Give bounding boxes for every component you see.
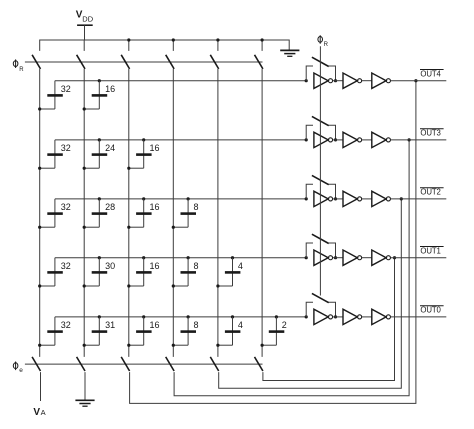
node phi_e (bottom left) bbox=[13, 362, 23, 374]
svg-text:DD: DD bbox=[82, 14, 93, 23]
wire phi_R comparator control vertical bbox=[319, 46, 321, 295]
switch phi_R comparator row 1 bbox=[312, 57, 329, 66]
switch phi_R comparator row 4 bbox=[312, 234, 329, 243]
wire inv2B to inv2C bbox=[362, 139, 372, 141]
svg-text:R: R bbox=[324, 42, 329, 48]
wire column 3 bbox=[128, 69, 130, 357]
wire row 5 top-plate line bbox=[55, 316, 306, 318]
capacitor 24C row 2 bbox=[83, 140, 116, 170]
capacitor 8C row 4 bbox=[172, 258, 199, 288]
node OUT4 label bbox=[420, 69, 444, 78]
ground top-right bbox=[280, 50, 299, 56]
capacitor 32C row 4 bbox=[38, 258, 71, 288]
inverter 4C bbox=[372, 250, 391, 265]
node OUT0 label bbox=[420, 306, 444, 315]
comparator row 2 reset bracket bbox=[306, 125, 337, 141]
svg-text:2: 2 bbox=[282, 320, 287, 330]
wire column 2 bbox=[83, 69, 85, 357]
capacitor 16C row 2 bbox=[127, 140, 159, 170]
inverter 3A bbox=[314, 191, 333, 206]
svg-text:24: 24 bbox=[105, 143, 115, 153]
svg-text:16: 16 bbox=[150, 202, 160, 212]
switch phi_R column 4 bbox=[166, 55, 174, 69]
comparator row 4 reset bracket bbox=[306, 243, 337, 259]
wire column 1 to VA bbox=[40, 372, 42, 401]
node row 4 junctions bbox=[98, 256, 308, 259]
wire feedback loop OUT3 to column 4 bbox=[174, 138, 411, 396]
wire phi_e line bbox=[25, 363, 263, 365]
wire row 1 top-plate line bbox=[55, 80, 306, 82]
svg-text:e: e bbox=[19, 367, 23, 374]
capacitor 2C row 5 bbox=[261, 317, 287, 347]
inverter 3B bbox=[343, 191, 362, 206]
switch phi_R column 3 bbox=[121, 55, 129, 69]
wire feedback loop OUT1 to column 6 bbox=[263, 256, 396, 380]
wire row 4 top-plate line bbox=[55, 257, 306, 259]
inverter 1C bbox=[372, 73, 391, 88]
svg-text:31: 31 bbox=[105, 320, 115, 330]
capacitor 32C row 1 bbox=[38, 81, 71, 111]
capacitor 16C row 3 bbox=[127, 199, 159, 229]
svg-text:16: 16 bbox=[150, 261, 160, 271]
svg-text:30: 30 bbox=[105, 261, 115, 271]
svg-text:OUT2: OUT2 bbox=[420, 188, 440, 197]
svg-text:OUT0: OUT0 bbox=[420, 306, 441, 315]
input VA bbox=[33, 407, 45, 418]
svg-text:8: 8 bbox=[194, 202, 199, 212]
wire inv1B to inv1C bbox=[362, 80, 372, 82]
svg-text:8: 8 bbox=[194, 320, 199, 330]
switch phi_R comparator row 5 bbox=[312, 293, 329, 302]
switch phi_e column 2 bbox=[77, 357, 85, 371]
comparator row 1 reset bracket bbox=[306, 66, 337, 82]
switch phi_e column 5 bbox=[210, 357, 218, 371]
switch phi_R column 5 bbox=[210, 55, 218, 69]
svg-text:R: R bbox=[19, 67, 24, 73]
wire column 4 bbox=[172, 69, 174, 357]
wire inv5B to inv5C bbox=[362, 316, 372, 318]
switch phi_e column 4 bbox=[166, 357, 174, 371]
switch phi_R column 6 bbox=[255, 55, 263, 69]
wire bus stubs to reset switches (junction dots) bbox=[84, 38, 264, 51]
inverter 5B bbox=[343, 309, 362, 324]
capacitor 8C row 5 bbox=[172, 317, 199, 347]
node phi_R (left) bbox=[13, 59, 24, 72]
wire output OUT0 bbox=[391, 316, 447, 318]
capacitor 32C row 3 bbox=[38, 199, 71, 229]
svg-text:32: 32 bbox=[61, 143, 71, 153]
svg-text:16: 16 bbox=[150, 143, 160, 153]
wire inv4A to inv4B bbox=[333, 257, 343, 259]
svg-text:A: A bbox=[41, 408, 46, 417]
inverter 4A bbox=[314, 250, 333, 265]
wire inv3A to inv3B bbox=[333, 198, 343, 200]
inverter 1B bbox=[343, 73, 362, 88]
capacitor 31C row 5 bbox=[83, 317, 116, 347]
capacitor 16C row 1 bbox=[83, 81, 116, 111]
comparator row 3 reset bracket bbox=[306, 184, 337, 200]
switch phi_R column 1 bbox=[32, 55, 40, 69]
wire inv3B to inv3C bbox=[362, 198, 372, 200]
capacitor 32C row 5 bbox=[38, 317, 71, 347]
node phi_R (comparator reset) bbox=[318, 35, 329, 48]
node row 2 junctions bbox=[98, 138, 308, 141]
svg-text:16: 16 bbox=[105, 84, 115, 94]
wire output OUT1 bbox=[391, 257, 447, 259]
wire row 3 top-plate line bbox=[55, 198, 306, 200]
node row 1 junctions bbox=[98, 79, 308, 82]
svg-text:4: 4 bbox=[238, 320, 243, 330]
svg-text:32: 32 bbox=[61, 261, 71, 271]
switch phi_e column 1 bbox=[32, 357, 40, 371]
wire column 6 bbox=[261, 69, 263, 357]
capacitor 4C row 5 bbox=[216, 317, 243, 347]
svg-text:OUT1: OUT1 bbox=[420, 246, 440, 255]
inverter 4B bbox=[343, 250, 362, 265]
switch phi_e column 6 bbox=[255, 357, 263, 371]
wire inv1A to inv1B bbox=[333, 80, 343, 82]
wire inv5A to inv5B bbox=[333, 316, 343, 318]
svg-text:OUT4: OUT4 bbox=[420, 69, 441, 78]
svg-text:32: 32 bbox=[61, 320, 71, 330]
wire output OUT3 bbox=[391, 139, 447, 141]
wire VDD bus bbox=[40, 40, 290, 51]
wire inv4B to inv4C bbox=[362, 257, 372, 259]
svg-text:16: 16 bbox=[150, 320, 160, 330]
node row 3 junctions bbox=[98, 197, 308, 200]
power VDD bbox=[76, 10, 94, 40]
inverter 3C bbox=[372, 191, 391, 206]
capacitor 32C row 2 bbox=[38, 140, 71, 170]
wire feedback loop OUT2 to column 5 bbox=[219, 197, 403, 388]
node OUT3 label bbox=[420, 129, 444, 138]
inverter 5C bbox=[372, 309, 391, 324]
wire column 2 to ground bbox=[84, 372, 86, 400]
svg-text:V: V bbox=[33, 407, 40, 418]
wire output OUT4 bbox=[391, 80, 447, 82]
capacitor 16C row 5 bbox=[127, 317, 159, 347]
wire output OUT2 bbox=[391, 198, 447, 200]
inverter 1A bbox=[314, 73, 333, 88]
wire feedback loop OUT4 to column 3 bbox=[130, 79, 418, 403]
svg-text:32: 32 bbox=[61, 202, 71, 212]
switch phi_R comparator row 3 bbox=[312, 175, 329, 184]
inverter 2A bbox=[314, 132, 333, 147]
switch phi_R column 2 bbox=[77, 55, 85, 69]
inverter 2B bbox=[343, 132, 362, 147]
svg-text:OUT3: OUT3 bbox=[420, 129, 440, 138]
capacitor 16C row 4 bbox=[127, 258, 159, 288]
svg-text:28: 28 bbox=[105, 202, 115, 212]
inverter 2C bbox=[372, 132, 391, 147]
node OUT2 label bbox=[420, 188, 444, 197]
wire column 1 bbox=[39, 69, 41, 357]
node row 5 junctions bbox=[98, 315, 308, 318]
wire row 2 top-plate line bbox=[55, 139, 306, 141]
capacitor 8C row 3 bbox=[172, 199, 199, 229]
wire phi_R line bbox=[25, 61, 263, 63]
switch phi_R comparator row 2 bbox=[312, 116, 329, 125]
capacitor 4C row 4 bbox=[216, 258, 243, 288]
svg-text:32: 32 bbox=[61, 84, 71, 94]
inverter 5A bbox=[314, 309, 333, 324]
switch phi_e column 3 bbox=[121, 357, 129, 371]
comparator row 5 reset bracket bbox=[306, 302, 337, 318]
capacitor 30C row 4 bbox=[83, 258, 116, 288]
ground bottom (column 2) bbox=[75, 400, 94, 406]
svg-text:4: 4 bbox=[238, 261, 243, 271]
node OUT1 label bbox=[420, 246, 444, 255]
capacitor 28C row 3 bbox=[83, 199, 116, 229]
wire inv2A to inv2B bbox=[333, 139, 343, 141]
wire column 5 bbox=[217, 69, 219, 357]
svg-text:8: 8 bbox=[194, 261, 199, 271]
